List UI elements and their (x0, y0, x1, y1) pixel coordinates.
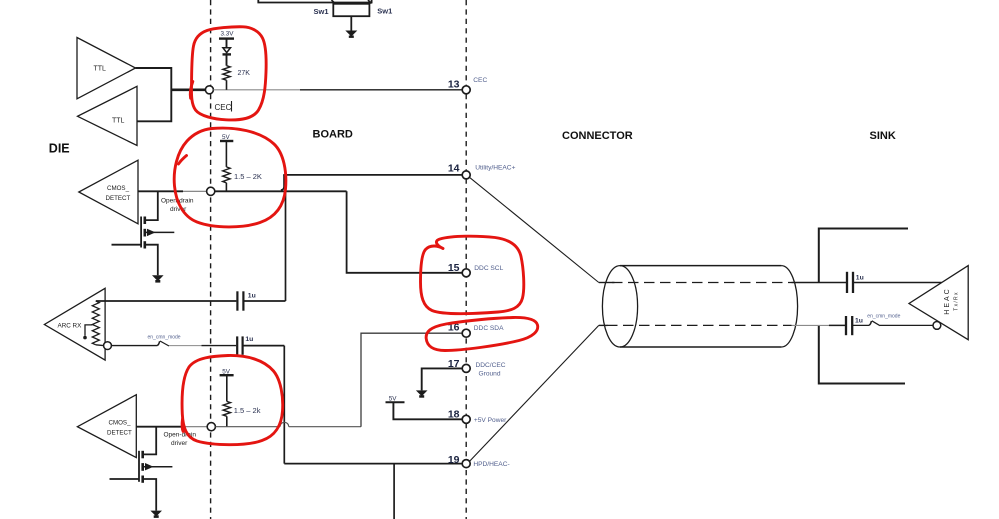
wire CEC node to pin 13 (213, 89, 462, 91)
wire node1 run to SCL corner (215, 190, 347, 192)
svg-text:ARC RX: ARC RX (58, 323, 83, 330)
switch Sw1 body (333, 4, 369, 16)
wire TTL bus (136, 68, 172, 121)
svg-text:HPD/HEAC-: HPD/HEAC- (473, 461, 509, 468)
svg-text:DDC SCL: DDC SCL (474, 265, 503, 272)
pin 14 Utility/HEAC+ (448, 163, 516, 179)
cable right end arc (781, 266, 797, 347)
capacitor C3 1u (847, 272, 864, 293)
supply 5V (pull-up 2) (220, 368, 234, 375)
wire switch to sink amp terminal (880, 324, 933, 326)
junction tick right (368, 0, 372, 4)
wire CMOS2 to node (136, 426, 207, 428)
wire pin 14 to cable (470, 177, 599, 282)
svg-text:DETECT: DETECT (107, 430, 132, 437)
pin 13 CEC (448, 77, 488, 94)
transistor Q1 drain to node wire (145, 191, 158, 220)
ground (Sw1) (345, 31, 357, 38)
node ARC RX lower terminal (96, 342, 112, 350)
wire lower conductor (dashed in cable) (607, 324, 792, 326)
transistor Q2 gate lead (110, 478, 140, 480)
op-amp sink ARC TX (909, 266, 968, 340)
transistor Q2 gate bar (138, 451, 140, 482)
wire C2 to down riser (243, 345, 285, 347)
svg-text:5V: 5V (222, 134, 231, 141)
wire resistor to CEC wire (226, 80, 228, 90)
TTL driver U1 (77, 38, 136, 99)
wire riser down to HPD run (283, 346, 285, 464)
svg-text:1u: 1u (245, 336, 253, 343)
svg-text:13: 13 (448, 78, 460, 90)
svg-text:HEAC: HEAC (944, 287, 951, 314)
wire node2 run with hop to SDA corner (215, 422, 361, 426)
wire step up to pin 14 line (281, 175, 284, 190)
wire resistor1 to node wire (225, 183, 227, 192)
svg-text:Tx/Rx: Tx/Rx (954, 291, 960, 311)
svg-text:1u: 1u (855, 318, 863, 325)
svg-text:en_cmn_mode: en_cmn_mode (867, 314, 900, 320)
capacitor C2 1u (237, 336, 253, 355)
pin 18 +5V Power (448, 409, 507, 424)
wire (cut-off box bottom edge at top) (258, 0, 371, 3)
svg-text:driver: driver (171, 440, 188, 447)
annotation red loop (CEC pull-up) (191, 27, 266, 120)
svg-text:5V: 5V (389, 395, 398, 402)
pin 16 DDC SDA (448, 322, 504, 338)
supply 5V (connector power) (386, 395, 405, 402)
svg-text:CEC: CEC (473, 77, 487, 84)
svg-text:Sw1: Sw1 (314, 7, 329, 16)
annotation red loop (HPD pull-up) (182, 355, 283, 444)
svg-text:TTL: TTL (112, 118, 125, 125)
svg-text:3.3V: 3.3V (221, 31, 235, 38)
wire ARC RX lower to switch (111, 345, 157, 347)
CMOS_DETECT receiver U3 (79, 160, 138, 224)
capacitor C4 1u (846, 316, 863, 335)
supply 5V (pull-up 1) (220, 134, 233, 141)
svg-text:TTL: TTL (94, 66, 107, 73)
supply 3.3V (219, 31, 234, 39)
svg-text:DDC SDA: DDC SDA (474, 325, 504, 332)
transistor Q1 source to ground (145, 245, 158, 276)
svg-text:Utility/HEAC+: Utility/HEAC+ (475, 164, 515, 171)
wire to pin 14 (283, 174, 462, 176)
wire C3 to sink amp (853, 282, 942, 284)
svg-text:CONNECTOR: CONNECTOR (562, 130, 633, 142)
wire CMOS1 to node (138, 190, 206, 192)
annotation red loop (DDC SCL) (421, 236, 524, 314)
svg-text:1u: 1u (248, 292, 256, 299)
svg-text:DETECT: DETECT (106, 195, 131, 202)
resistor 27K (223, 66, 250, 81)
switch en_cmn_mode (sink) (852, 321, 880, 326)
annotation red tick (CEC node) (190, 82, 192, 99)
wire lower conductor to cap C4 (792, 324, 846, 326)
transistor Q2 channel segments (141, 451, 144, 483)
wire pin 17 to ground (422, 368, 463, 390)
wire 5V to resistor 1 (225, 141, 227, 167)
svg-text:1.5 – 2k: 1.5 – 2k (234, 406, 261, 415)
resistor (ARC RX internal, with tap) (83, 301, 99, 345)
resistor 1.5-2K (223, 167, 262, 183)
wire riser to node1 run (285, 191, 287, 301)
switch en_cmn_mode (board) (157, 341, 169, 346)
wire ARC RX top to coupling cap (96, 300, 237, 302)
annotation red tick (HEAC+ node) (179, 156, 187, 165)
transistor Q1 gate bar (140, 217, 142, 248)
svg-text:15: 15 (448, 262, 460, 274)
label Open-drain driver (bottom) (164, 432, 197, 448)
BOARD/CONNECTOR boundary dashed line (465, 0, 467, 519)
label Open-drain driver (top) (161, 198, 194, 214)
transistor Q1 channel segments (144, 217, 147, 249)
resistor 1.5-2k (223, 401, 261, 416)
wire Sw1 to ground (350, 16, 352, 31)
svg-text:SINK: SINK (870, 130, 896, 142)
svg-text:27K: 27K (238, 70, 251, 77)
ground (DDC/CEC) (416, 390, 428, 397)
annotation red loop (HEAC+ pull-up) (174, 128, 286, 227)
svg-text:Ground: Ground (479, 370, 501, 377)
wire 5V to pin 18 (393, 402, 462, 419)
svg-text:14: 14 (448, 163, 460, 175)
wire down to DDC SCL level (347, 191, 463, 272)
wire HPD run to pin 19 (284, 463, 462, 465)
wire stub below pin 19 run (393, 464, 395, 519)
annotation red loop (DDC SDA) (426, 317, 538, 350)
wire up to DDC SDA level (361, 333, 462, 427)
transistor Q1 gate lead (112, 244, 142, 246)
node open-drain 1 (207, 187, 215, 195)
cable shield cylinder body (620, 266, 781, 347)
svg-text:1.5 – 2K: 1.5 – 2K (234, 172, 262, 181)
capacitor C1 1u (237, 291, 255, 310)
svg-text:CEC: CEC (215, 103, 232, 112)
wire C1 to riser (243, 300, 285, 302)
svg-text:CMOS_: CMOS_ (107, 185, 130, 192)
wire resistor2 to node wire (226, 416, 228, 426)
op-amp ARC RX (44, 288, 105, 360)
wire TTL bus to CEC node (171, 89, 205, 92)
svg-text:DDC/CEC: DDC/CEC (476, 362, 506, 369)
wire stub to lower conductor (599, 324, 608, 326)
junction tick left (332, 0, 336, 4)
svg-text:Sw1: Sw1 (377, 7, 392, 16)
wire stub to upper conductor (599, 282, 615, 284)
svg-text:en_cmn_mode: en_cmn_mode (148, 335, 181, 341)
svg-text:+5V Power: +5V Power (474, 417, 507, 424)
wire 3.3V to diode (226, 39, 228, 48)
TTL receiver U2 (78, 86, 138, 145)
sink termination rail (bottom) (819, 325, 905, 383)
node CEC (die pad) (205, 86, 213, 94)
node open-drain 2 (207, 423, 215, 431)
wire switch to cap C2 (169, 345, 236, 347)
svg-text:DIE: DIE (49, 142, 70, 156)
pin 19 HPD/HEAC- (448, 454, 510, 468)
annotation red tick (HPD node) (182, 419, 183, 432)
transistor Q2 drain to node wire (143, 427, 157, 455)
transistor Q2 source to ground (143, 479, 157, 511)
diode D1 (223, 48, 232, 55)
pin 15 DDC SCL (448, 262, 504, 277)
ground (Q2 source) (150, 511, 162, 518)
ground (Q1 source) (152, 275, 164, 282)
DIE/BOARD boundary dashed line (210, 0, 212, 519)
wire pin 19 to cable (470, 325, 599, 461)
node sink amp lower terminal (933, 322, 941, 330)
svg-text:1u: 1u (856, 274, 864, 281)
transistor Q1 body arrow (145, 229, 175, 236)
svg-text:CMOS_: CMOS_ (109, 420, 132, 427)
sink termination rail (top) (819, 229, 908, 283)
CMOS_DETECT receiver U4 (77, 395, 136, 458)
wire upper conductor to cap C3 (792, 282, 847, 284)
pin 17 DDC/CEC (448, 358, 506, 378)
label CEC with text caret (215, 101, 232, 112)
wire upper conductor (dashed in cable) (612, 282, 792, 284)
wire diode to resistor (226, 54, 228, 65)
cable left end ellipse (602, 266, 637, 347)
transistor Q2 body arrow (143, 463, 173, 470)
svg-text:19: 19 (448, 454, 460, 466)
svg-text:BOARD: BOARD (313, 129, 353, 141)
wire 5V to resistor 2 (226, 375, 228, 401)
